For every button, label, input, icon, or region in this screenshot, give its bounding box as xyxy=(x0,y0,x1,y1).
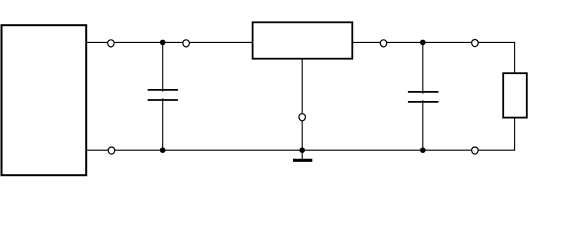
wire: top rail right (regulator output to load) xyxy=(352,42,514,73)
regulator U1 (top center rectangle) xyxy=(253,22,353,58)
node: junction bottom of C2 xyxy=(420,147,426,153)
node: junction top of C2 xyxy=(420,40,426,46)
terminal pin on regulator ground pin xyxy=(299,114,306,121)
node: junction bottom of C1 xyxy=(160,147,166,153)
wire: C2 bottom lead xyxy=(422,100,424,150)
capacitor C2 plates xyxy=(408,92,439,102)
source block (left rectangle) xyxy=(2,25,87,175)
terminal pin on top rail after source xyxy=(108,40,115,47)
node: junction at ground xyxy=(299,147,305,153)
terminal pin on bottom rail near source xyxy=(108,147,115,154)
wire: C2 top lead xyxy=(422,42,424,93)
terminal pin on top rail before regulator xyxy=(183,40,190,47)
ground xyxy=(293,159,312,162)
wire: regulator ground pin lower segment xyxy=(301,121,303,150)
wire: C1 top lead xyxy=(162,42,164,91)
wire: bottom rail xyxy=(86,118,514,151)
terminal pin on top rail after regulator xyxy=(380,40,387,47)
resistor R1 (load, right rectangle) xyxy=(503,73,527,117)
wire: ground stub xyxy=(301,150,303,159)
node: junction top of C1 xyxy=(160,40,166,46)
terminal pin on top rail before load xyxy=(472,40,479,47)
wire: C1 bottom lead xyxy=(162,98,164,150)
capacitor C1 plates xyxy=(148,90,178,100)
wire: regulator ground pin upper segment xyxy=(301,59,303,114)
wire: top rail left (source to regulator input) xyxy=(86,41,252,43)
terminal pin on bottom rail near load xyxy=(472,147,479,154)
